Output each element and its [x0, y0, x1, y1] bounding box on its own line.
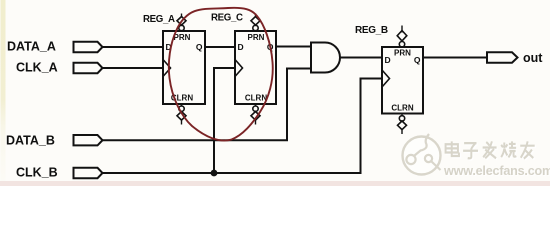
svg-text:CLK_B: CLK_B	[16, 166, 58, 180]
svg-text:D: D	[385, 55, 391, 65]
REG_B PRN pin stub	[401, 26, 403, 33]
wire REG_B.Q to output port	[423, 57, 487, 59]
input port DATA_B	[74, 135, 103, 145]
watermark url www.elecfans.com	[443, 164, 550, 179]
input port CLK_B	[74, 168, 103, 178]
REG_C CLRN bubble	[253, 106, 258, 111]
REG_C PRN bubble	[253, 25, 258, 30]
REG_C clock triangle	[235, 60, 243, 77]
svg-text:DATA_A: DATA_A	[7, 40, 56, 54]
svg-text:out: out	[523, 51, 543, 65]
and gate U1	[311, 43, 340, 73]
REG_A PRN pin stub	[181, 14, 183, 18]
REG_C PRN pin stub	[255, 14, 257, 18]
flip-flop REG_A	[163, 14, 205, 125]
wire CLK_B branch to REG_C.CLK	[214, 68, 235, 173]
REG_C body	[235, 31, 276, 104]
svg-text:DATA_B: DATA_B	[6, 134, 55, 148]
REG_A clock triangle	[163, 60, 171, 77]
svg-text:CLRN: CLRN	[245, 94, 267, 103]
svg-text:REG_C: REG_C	[211, 13, 243, 24]
REG_B PRN bubble	[399, 42, 404, 47]
flip-flop REG_C	[235, 14, 276, 125]
REG_A CLRN bubble	[179, 106, 184, 111]
svg-text:Q: Q	[414, 55, 421, 65]
svg-text:PRN: PRN	[174, 33, 191, 42]
wire REG_A.Q to REG_C.D	[205, 46, 235, 48]
wire DATA_B riser to AND gate lower input	[287, 69, 311, 141]
svg-text:CLRN: CLRN	[391, 104, 413, 113]
input port DATA_A	[74, 42, 103, 52]
REG_A CLRN diamond	[177, 112, 186, 121]
svg-text:PRN: PRN	[248, 33, 265, 42]
REG_A PRN diamond	[177, 17, 186, 26]
REG_A CLRN pin stub upper	[181, 104, 183, 106]
junction dot on CLK_B net	[211, 170, 218, 177]
wire CLK_B riser to REG_B.CLK	[361, 79, 383, 174]
input port CLK_A	[74, 63, 103, 73]
watermark logo circle (elecfans)	[403, 134, 441, 175]
REG_C CLRN pin stub upper	[255, 104, 257, 106]
REG_A CLRN pin stub lower	[181, 120, 183, 124]
watermark text 电子发烧友	[447, 143, 536, 160]
wire CLK_A to REG_A.CLK	[103, 67, 164, 69]
flip-flop REG_B	[382, 26, 423, 135]
svg-text:REG_B: REG_B	[355, 25, 388, 36]
svg-text:www.elecfans.com: www.elecfans.com	[443, 164, 550, 178]
svg-text:PRN: PRN	[394, 49, 411, 58]
REG_B CLRN pin stub lower	[401, 130, 403, 134]
wire DATA_B horizontal run	[103, 139, 289, 141]
svg-text:CLK_A: CLK_A	[16, 61, 58, 75]
wire AND gate output to REG_B.D	[340, 57, 382, 59]
wire CLK_B horizontal run	[103, 172, 362, 174]
wire REG_C.Q to AND gate upper input	[276, 46, 311, 48]
REG_B PRN diamond	[397, 31, 407, 41]
svg-text:Q: Q	[196, 42, 203, 52]
REG_A body	[163, 31, 205, 104]
output port out	[487, 52, 518, 62]
REG_C CLRN pin stub lower	[255, 120, 257, 124]
REG_B CLRN pin stub upper	[401, 114, 403, 116]
svg-text:REG_A: REG_A	[143, 14, 175, 25]
REG_B CLRN diamond	[398, 121, 407, 130]
REG_C CLRN diamond	[251, 112, 260, 121]
REG_C PRN diamond	[251, 17, 260, 26]
wire DATA_A to REG_A.D	[103, 46, 164, 48]
REG_B CLRN bubble	[399, 116, 404, 121]
REG_B clock triangle	[382, 70, 390, 87]
red annotation ellipse circling REG_A and REG_C	[169, 8, 273, 141]
svg-text:D: D	[238, 42, 244, 52]
REG_B body	[382, 47, 423, 114]
REG_A PRN bubble	[179, 25, 184, 30]
